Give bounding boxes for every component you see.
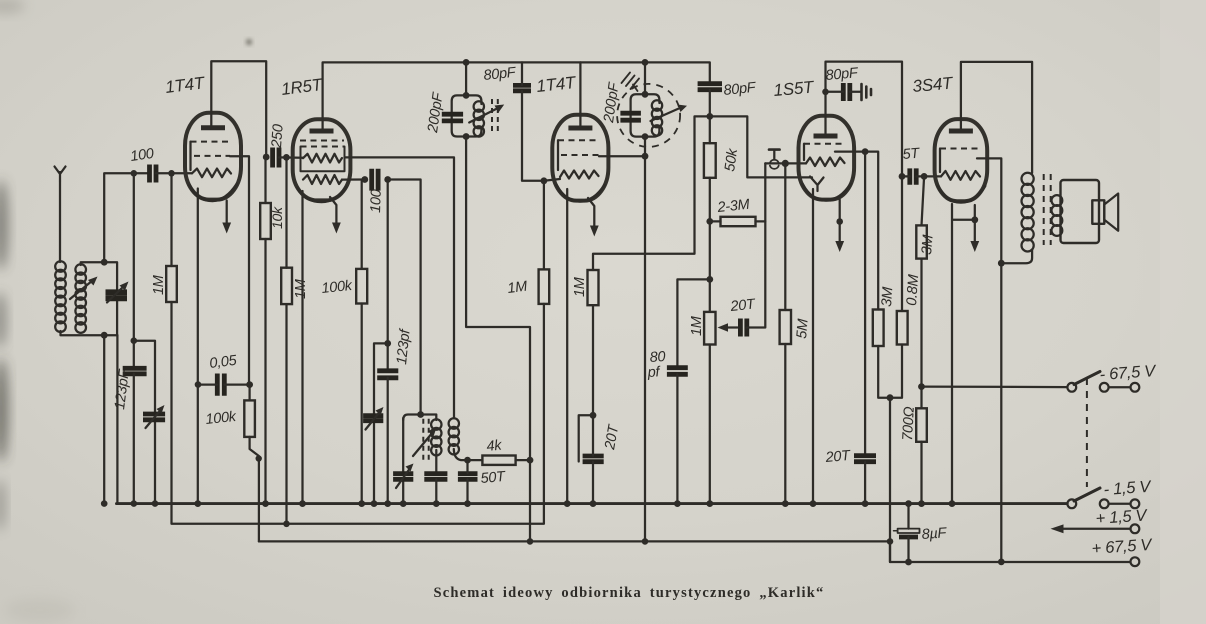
wire: V4 screen out bbox=[835, 150, 865, 152]
resistor 3M screen feed bbox=[873, 310, 884, 347]
wire: 10k leads bbox=[264, 157, 266, 203]
svg-text:20T: 20T bbox=[729, 296, 757, 315]
wire: 100k top lead bbox=[248, 385, 250, 401]
capacitor 50T bbox=[458, 474, 478, 480]
svg-text:1M: 1M bbox=[293, 278, 309, 299]
capacitor 20T screen bypass bbox=[854, 456, 876, 462]
wire: tone cap wiring bbox=[826, 91, 844, 93]
terminal +67,5V bbox=[1131, 557, 1140, 566]
svg-text:1M: 1M bbox=[507, 279, 530, 297]
node: 50k/2-3M bbox=[706, 218, 713, 225]
arrow: pot wiper with 20T cap bbox=[718, 323, 729, 331]
wire: 4k node up to IF tank 1 bottom bbox=[466, 137, 530, 461]
svg-text:1M: 1M bbox=[151, 274, 167, 295]
node: grid/5M bbox=[782, 160, 789, 167]
filament arc (V2) bbox=[298, 187, 346, 202]
wire: V1 filament lead to bus bbox=[197, 189, 199, 504]
node: 20T bus bbox=[590, 500, 597, 507]
wire: into V2 bbox=[279, 156, 303, 159]
svg-text:- 1,5 V: - 1,5 V bbox=[1103, 478, 1153, 499]
wire: +67,5V line bbox=[890, 541, 1131, 562]
node: padder bus bbox=[371, 500, 378, 507]
wire: 123pF bottom to bus bbox=[133, 374, 135, 504]
wire: 1M bottom to 20T node bbox=[592, 305, 594, 415]
arrow: V5 filament return bbox=[974, 205, 976, 243]
capacitor 20T bbox=[583, 456, 604, 462]
inductor tank1 coil bbox=[474, 101, 484, 136]
node: 20T bus bbox=[862, 500, 869, 507]
capacitor 5T coupling bbox=[910, 168, 916, 184]
wire: 3M leads / bias line bbox=[922, 176, 925, 225]
wire: grid into V3 bbox=[544, 179, 560, 181]
dashed circle (shielded IF can) bbox=[617, 84, 680, 147]
node: 0,05/100k/screen bbox=[246, 381, 253, 388]
wire: V5 screen out to transformer return bbox=[977, 158, 1001, 562]
inductor output transformer secondary bbox=[1052, 195, 1063, 236]
svg-text:250: 250 bbox=[269, 124, 287, 150]
svg-text:1S5T: 1S5T bbox=[773, 77, 816, 100]
svg-text:50k: 50k bbox=[722, 147, 741, 173]
wire: osc coil1 to 50T cap bbox=[435, 415, 437, 474]
tube V4 1S5T envelope and anode bbox=[799, 116, 855, 200]
resistor 5M volume bbox=[780, 310, 791, 344]
capacitor 80pF grid coupling V3 bbox=[513, 85, 531, 90]
wire: V4 filament to bus bbox=[812, 189, 814, 504]
wire: 80pf branch bbox=[677, 279, 709, 367]
grid g2 dashed (V1) bbox=[191, 141, 231, 143]
grid dashed (V5) bbox=[940, 148, 980, 150]
capacitor 80pf det bypass bbox=[667, 368, 688, 375]
capacitor 200pF tank2 bbox=[620, 113, 641, 120]
wire: V2 box to oscillator coil (long) bbox=[345, 157, 455, 418]
wire: tank2 bottom down to +67,5 line bbox=[644, 137, 646, 542]
tube V5 3S4T envelope and anode bbox=[935, 119, 988, 201]
speaker cone bbox=[1104, 194, 1118, 231]
wire: tank bottom to bus bbox=[103, 335, 105, 503]
resistor 0.8M anode load bbox=[897, 311, 908, 345]
node: V2 filament bus bbox=[299, 500, 306, 507]
wire: tank1 top feed bbox=[465, 62, 467, 95]
wire: 0,05 node wiring bbox=[198, 383, 217, 385]
control grid zigzag (V4) bbox=[806, 158, 845, 167]
filament arc (V1) bbox=[190, 184, 237, 201]
wire: -67,5V line to switch bbox=[922, 385, 1068, 388]
wire: osc coil2 bottom to 4k node bbox=[454, 449, 468, 460]
node: 123pF bus bbox=[131, 500, 138, 507]
inductor tank2 coil bbox=[652, 100, 662, 135]
resistor 700ohm bias bbox=[916, 408, 927, 442]
wire: V3 output to IF tank2 bbox=[599, 155, 645, 157]
wire: 5M leads bbox=[784, 163, 786, 310]
node: -67,5V tap bbox=[918, 383, 925, 390]
node: tank2 bottom bbox=[642, 133, 649, 140]
node: 80pf bus bbox=[674, 500, 681, 507]
filament arc (V4) bbox=[803, 184, 851, 200]
grid dashed (V3) bbox=[558, 139, 600, 141]
node: jog bbox=[256, 455, 262, 461]
core adjust marks bbox=[622, 73, 640, 92]
wire: V5 anode lead up and over to output transformer bbox=[961, 62, 1032, 173]
capacitor 0,05 bbox=[217, 374, 224, 396]
node: padder2 bus bbox=[384, 500, 391, 507]
wire: 4k node down to +67,5 line bbox=[529, 460, 531, 541]
IF transformer 2 frame bbox=[631, 94, 660, 136]
resistor 100k decoupling bbox=[244, 400, 255, 437]
svg-text:3M: 3M bbox=[919, 233, 937, 255]
node: tank2 top bbox=[642, 91, 649, 98]
electrode side rail (V4) bbox=[803, 144, 805, 160]
svg-text:Schemat ideowy odbiornika tury: Schemat ideowy odbiornika turystycznego … bbox=[433, 585, 824, 601]
svg-text:100k: 100k bbox=[205, 409, 238, 428]
svg-text:100k: 100k bbox=[321, 278, 354, 297]
grid dashed (V2) bbox=[300, 140, 344, 142]
arrow: V2 filament return bbox=[330, 197, 336, 224]
svg-text:0.8M: 0.8M bbox=[904, 273, 922, 306]
switch S1a (-67,5V) bbox=[1067, 383, 1076, 392]
inductor osc coil 1 bbox=[431, 419, 441, 455]
node: V1 filament bus bbox=[194, 500, 201, 507]
oscillator anode box (V2) bbox=[301, 147, 345, 172]
wire: V1 anode lead up and over to 250 cap bbox=[211, 61, 266, 157]
node: screen line on +67,5 bbox=[998, 559, 1005, 566]
variable capacitor osc trimmer bbox=[363, 416, 383, 421]
node: 100 cap left / 100k bbox=[361, 176, 368, 183]
svg-text:8µF: 8µF bbox=[921, 525, 948, 543]
resistor 2-3M bbox=[721, 217, 756, 226]
wire: 80pf to bus bbox=[676, 374, 678, 503]
wire: padder chain down bbox=[387, 180, 389, 371]
svg-text:700Ω: 700Ω bbox=[900, 406, 918, 441]
node: 250 right junction bbox=[283, 154, 290, 161]
wire: 20T bypass elbow bbox=[579, 415, 593, 461]
svg-text:10k: 10k bbox=[269, 206, 285, 229]
wire: padder bypass branch bbox=[374, 343, 388, 503]
IF transformer 1 frame bbox=[452, 95, 482, 136]
variable capacitor antenna tuning bbox=[106, 292, 128, 298]
capacitor 123pF fixed bbox=[123, 368, 147, 374]
grid g3 dashed with output (V3) bbox=[561, 154, 599, 156]
control grid zigzag (V1) bbox=[192, 169, 231, 178]
svg-text:+ 1,5 V: + 1,5 V bbox=[1095, 506, 1149, 528]
wire: 4k leads bbox=[468, 459, 483, 461]
ground (chassis) bbox=[862, 84, 872, 100]
svg-text:20T: 20T bbox=[824, 448, 852, 466]
wire: 100k leads bbox=[361, 180, 363, 269]
wire: V5 filament U and bus lead bbox=[952, 204, 975, 504]
control grid zigzag (V3) bbox=[560, 171, 599, 179]
node: osc cap bus bbox=[433, 500, 440, 507]
resistor 1M (V2 grid leak) bbox=[281, 268, 292, 304]
node: coil2/4k/50T bbox=[464, 457, 471, 464]
wire: V4 grid wire bbox=[765, 162, 806, 164]
wire: bus left end riser bbox=[116, 335, 118, 503]
node: V3 output junction bbox=[642, 153, 649, 160]
resistor 3M output grid leak bbox=[916, 225, 927, 258]
wire: AVC bus line joining 1M grid leaks bbox=[172, 302, 544, 524]
node: on +67,5 line bbox=[642, 538, 649, 545]
svg-text:1M: 1M bbox=[572, 276, 588, 297]
transformer core dashed bbox=[1043, 174, 1045, 245]
wire: B+ riser down to +67,5 line bbox=[889, 398, 891, 562]
wire: 3M/0.8M merge to B+ bbox=[878, 345, 902, 398]
wire: V2 anode lead and HT top rail to 80pF bbox=[323, 62, 710, 129]
node: transformer/screen junction bbox=[998, 260, 1005, 267]
node: 50T bus bbox=[464, 500, 471, 507]
variable capacitor osc tuning bbox=[393, 474, 413, 480]
resistor 1M first grid leak bbox=[166, 266, 177, 302]
svg-text:100: 100 bbox=[129, 146, 155, 165]
electrode side rail (V5) bbox=[939, 149, 941, 173]
inductor L1 antenna primary coil bbox=[55, 261, 66, 332]
wire: 50k bottom bbox=[709, 178, 711, 312]
wire: pot to bus bbox=[709, 345, 711, 504]
wire: V4 anode lead up and over to 0.8M bbox=[826, 62, 903, 311]
node: V4 screen junction bbox=[862, 148, 869, 155]
terminal +1,5V with arrow bbox=[1131, 524, 1140, 533]
control grid zigzag (V5) bbox=[941, 171, 980, 180]
svg-text:4k: 4k bbox=[486, 437, 503, 455]
wire: branch to trimmer 1 bbox=[134, 341, 155, 504]
capacitor 250 coupling bbox=[273, 148, 279, 168]
node: V3 filament bus bbox=[564, 500, 571, 507]
svg-text:1M: 1M bbox=[689, 315, 705, 336]
potentiometer 1M (regeneration) bbox=[704, 312, 715, 345]
svg-text:3M: 3M bbox=[879, 285, 896, 307]
svg-text:5T: 5T bbox=[902, 145, 921, 162]
node: tank line bus bbox=[101, 500, 108, 507]
arrow tank2 tuning bbox=[651, 108, 682, 122]
node: 5T right / 3M grid leak bbox=[921, 173, 928, 180]
wire: 20T leads bbox=[592, 415, 594, 455]
arrow tuning indicator on antenna coil bbox=[70, 281, 93, 300]
wire: +67,5V feed long line bbox=[259, 540, 890, 542]
wire: 1M top lead bbox=[170, 173, 172, 266]
capacitor osc fixed bbox=[424, 474, 447, 480]
node: 100k bus bbox=[358, 500, 365, 507]
core dashed tank1 bbox=[491, 99, 493, 135]
switch S1b (-1,5V) bbox=[1067, 499, 1076, 508]
resistor 4k bbox=[482, 456, 515, 465]
node tank bottom bbox=[101, 332, 108, 339]
electrode side rail (V1) bbox=[189, 142, 191, 170]
wire: detector diode feed bbox=[710, 116, 812, 177]
wire: screen to 3M bbox=[865, 152, 878, 310]
node: 20T tap bbox=[590, 412, 597, 419]
filament arc (V5) bbox=[938, 186, 985, 202]
node: osc varcap bus bbox=[400, 500, 407, 507]
pickup jack contact bbox=[769, 148, 780, 151]
antenna symbol bbox=[55, 167, 66, 182]
svg-text:0,05: 0,05 bbox=[209, 353, 239, 372]
node grid/1M bbox=[168, 170, 175, 177]
node: HT rail / tank2 bbox=[642, 59, 649, 66]
wire: V2 signal grid out to 100 cap bbox=[342, 178, 365, 180]
node: pot bus bbox=[706, 500, 713, 507]
wire: V1 screen output to 0,05 node bbox=[230, 156, 249, 384]
svg-text:50T: 50T bbox=[480, 469, 507, 487]
wire: osc box left branch bbox=[402, 418, 404, 504]
node tank top bbox=[101, 259, 108, 266]
variable capacitor IF trimmer 1 bbox=[143, 414, 165, 420]
wire: antenna coil bottom return bbox=[61, 331, 118, 335]
svg-text:100: 100 bbox=[368, 189, 385, 213]
tube V2 1R5T envelope and anode bbox=[293, 119, 351, 200]
wire: V3 anode lead to HT rail bbox=[579, 62, 581, 126]
wire: 20T to bus bbox=[864, 462, 866, 504]
node: 4k right bbox=[527, 457, 534, 464]
node: 10k bus bbox=[262, 500, 269, 507]
wire: 80pF lower lead bbox=[709, 90, 711, 143]
grid g3 dashed with output (V1) bbox=[194, 155, 230, 157]
arrow: V3 filament return bbox=[588, 198, 594, 227]
tube V3 1T4T envelope and anode bbox=[552, 115, 608, 201]
node: anode/250/10k junction bbox=[263, 154, 270, 161]
wire: antenna lead bbox=[59, 181, 61, 262]
node: on +67,5 line bbox=[527, 538, 534, 545]
wire: padder lower lead bbox=[387, 378, 389, 504]
node: 100 cap right / padder bbox=[384, 176, 391, 183]
node: V3 grid / 1M bbox=[541, 177, 548, 184]
capacitor 123pf padder bbox=[377, 371, 398, 378]
wire: 123pF branch bbox=[133, 173, 135, 368]
wire: mixer grid to osc tank bbox=[388, 180, 421, 415]
node: filament/0,05 tap bbox=[195, 381, 202, 388]
filament arc (V3) bbox=[557, 185, 605, 201]
wire: grid wire into tube V1 bbox=[156, 172, 192, 174]
wire: 1M top lead bbox=[543, 181, 545, 270]
resistor 1M (V3 grid leak) bbox=[539, 269, 550, 304]
node: trimmer1 bus bbox=[152, 500, 159, 507]
node: 5M bus bbox=[782, 500, 789, 507]
grid dashed (V4) bbox=[804, 143, 846, 145]
osc grid zigzag inside box (V2) bbox=[303, 154, 342, 163]
node: padder tap bbox=[384, 340, 391, 347]
node: V4 filament bus bbox=[810, 500, 817, 507]
resistor 100k (mixer) bbox=[356, 269, 367, 304]
wire: to bus bbox=[435, 479, 437, 503]
resistor 50k bbox=[704, 143, 716, 178]
node: 5T tap on anode line bbox=[899, 173, 906, 180]
wire: 100k bottom jog to +67,5 line bbox=[250, 437, 259, 542]
wire: V2 filament lead to bus bbox=[301, 191, 303, 504]
node 123pF/trimmer tap bbox=[131, 337, 138, 344]
svg-text:5M: 5M bbox=[794, 317, 812, 339]
wire: osc box top bbox=[403, 415, 436, 421]
svg-text:80pF: 80pF bbox=[825, 65, 860, 84]
wire: 2-3M leads bbox=[710, 220, 721, 222]
arrow: osc core tuning bbox=[413, 432, 433, 456]
resistor 1M (V3 anode load) bbox=[588, 270, 599, 305]
wire: main bottom bus bbox=[117, 502, 1068, 505]
electrode side rail (V3) bbox=[557, 140, 559, 170]
inductor L2 antenna tank coil bbox=[75, 264, 86, 333]
wire: 1M to 50k node bbox=[593, 116, 710, 270]
node: on +67,5 feed line bbox=[887, 538, 894, 545]
node: tank1 top bbox=[463, 92, 470, 99]
core dashed (osc) bbox=[422, 419, 424, 462]
capacitor 200pF tank1 bbox=[442, 114, 463, 121]
wire: 80pF from HT rail down to V3 grid bbox=[522, 62, 544, 180]
wire: antenna tank loop bbox=[81, 262, 117, 335]
capacitor C1 100 grid coupling bbox=[150, 165, 157, 183]
wire: 8uF leads bbox=[907, 504, 909, 529]
wire: 1M leads bbox=[285, 157, 287, 267]
node: osc tank top bbox=[417, 411, 424, 418]
node: 80pf tap bbox=[706, 276, 713, 283]
node: 80pF/50k bbox=[706, 113, 713, 120]
wire: 20T to grid node riser bbox=[747, 163, 766, 327]
control grid zigzag 2 (V2) bbox=[303, 175, 342, 184]
wire: 50T leads bbox=[466, 460, 468, 473]
wire: screen bypass riser bbox=[864, 152, 866, 456]
node: V5 filament bus bbox=[949, 500, 956, 507]
node: 8uF on +67,5 bbox=[905, 559, 912, 566]
capacitor 80pF tone (anode to chassis) bbox=[843, 83, 850, 101]
arrow: V4 filament return bbox=[839, 200, 841, 244]
arrow: V1 filament return bbox=[226, 201, 228, 225]
node grid/123pF bbox=[131, 170, 138, 177]
speaker frame bbox=[1061, 180, 1100, 243]
tube V1 1T4T envelope and anode bbox=[185, 113, 241, 200]
wire: 5T wiring bbox=[902, 175, 910, 177]
wire: tank2 feed bbox=[644, 62, 646, 94]
node: 8uF bus bbox=[905, 500, 912, 507]
wire: tank top to grid line bbox=[104, 173, 149, 262]
node: 1M on AVC line bbox=[283, 521, 290, 528]
speaker driver bbox=[1092, 200, 1104, 224]
arrow tank1 tuning bbox=[469, 108, 498, 123]
switch gang dashed link bbox=[1086, 378, 1088, 487]
wire: V3 filament lead to bus bbox=[566, 189, 568, 504]
inductor osc coil 2 bbox=[449, 418, 459, 454]
node: 700ohm bus bbox=[918, 500, 925, 507]
svg-text:3S4T: 3S4T bbox=[912, 73, 955, 96]
wire: 700ohm to bus bbox=[920, 442, 922, 504]
node: tank1 bottom bbox=[463, 133, 470, 140]
diode plate (V4) bbox=[810, 177, 824, 192]
wire: primary bottom return bbox=[1001, 250, 1032, 263]
capacitor 20T (wiper) bbox=[740, 319, 746, 337]
capacitor 8uF electrolytic bbox=[898, 529, 920, 533]
inductor output transformer primary bbox=[1022, 173, 1034, 252]
capacitor 100 (mixer grid) bbox=[372, 169, 378, 191]
resistor 10k bbox=[260, 203, 271, 239]
capacitor 80pF (IF coupling to detector) bbox=[698, 84, 722, 90]
node: HT rail / tank1 bbox=[463, 59, 470, 66]
